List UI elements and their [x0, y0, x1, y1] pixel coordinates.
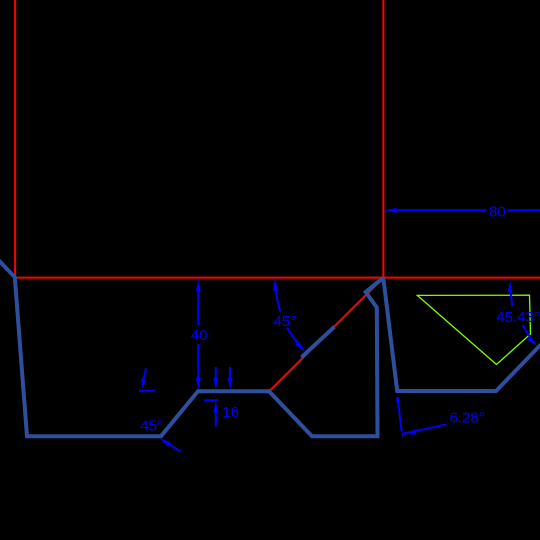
- dim 6.28 arrowhead bottom: [402, 430, 416, 435]
- dimension 40 line: [197, 291, 199, 380]
- blue segment on diagonal middle: [301, 327, 334, 358]
- svg-text:45.43°: 45.43°: [496, 309, 540, 326]
- dim 6.28 leader line: [404, 424, 447, 433]
- dim 45deg top arrowhead upper: [273, 279, 278, 291]
- dim 45.43 arrow line upper: [510, 292, 512, 307]
- blue segment on diagonal near apex: [366, 278, 384, 292]
- svg-text:80: 80: [489, 204, 506, 221]
- dim 6.28 arrowhead top: [396, 395, 400, 401]
- dim 16 outer arrow right: [229, 367, 231, 380]
- dim 6.28 tail: [401, 433, 404, 437]
- red construction vertical line right: [382, 0, 384, 281]
- dim 16 extension bar: [204, 399, 219, 401]
- dim 45deg bottom-left leader line: [169, 444, 181, 451]
- dimension 80 arrowhead: [385, 208, 397, 213]
- tiny leader line mid-left: [143, 368, 146, 380]
- svg-text:16: 16: [222, 404, 239, 421]
- dim 6.28 arc line: [398, 397, 402, 432]
- svg-text:45°: 45°: [274, 313, 297, 330]
- blue profile polyline main outline: [0, 260, 383, 437]
- red construction vertical line left: [14, 0, 16, 278]
- svg-text:6.28°: 6.28°: [450, 409, 485, 426]
- dim 45.43 arrowhead lower: [527, 336, 537, 345]
- dim 45.43 leader line lower: [523, 325, 530, 337]
- dim 16 lower arrowhead: [213, 401, 218, 413]
- dim 45deg top angular arc upper segment: [275, 282, 280, 311]
- dimension 40 arrowhead bottom: [196, 378, 201, 390]
- blue profile right part: steep line, bottom, 45 diagonal: [383, 278, 540, 391]
- dim 16 lower arrow line: [215, 412, 217, 427]
- dim 45deg top angular arc lower segment: [287, 328, 303, 350]
- tiny leader base bar: [139, 390, 155, 392]
- red construction horizontal line: [14, 277, 540, 279]
- dimension 80 line: [396, 209, 540, 211]
- red 45deg diagonal line: [270, 278, 384, 391]
- dim 45.43 arrowhead upper: [508, 280, 513, 292]
- svg-text:45°: 45°: [140, 417, 163, 434]
- svg-text:40: 40: [191, 327, 208, 344]
- dimension 40 arrowhead top: [196, 279, 201, 291]
- dim 16 outer arrow left: [215, 367, 217, 380]
- dim 45deg top arrowhead lower: [295, 342, 305, 352]
- tiny leader arrowhead: [141, 378, 146, 388]
- dim 45deg bottom-left arrowhead: [160, 438, 171, 446]
- green quadrilateral: [417, 295, 530, 364]
